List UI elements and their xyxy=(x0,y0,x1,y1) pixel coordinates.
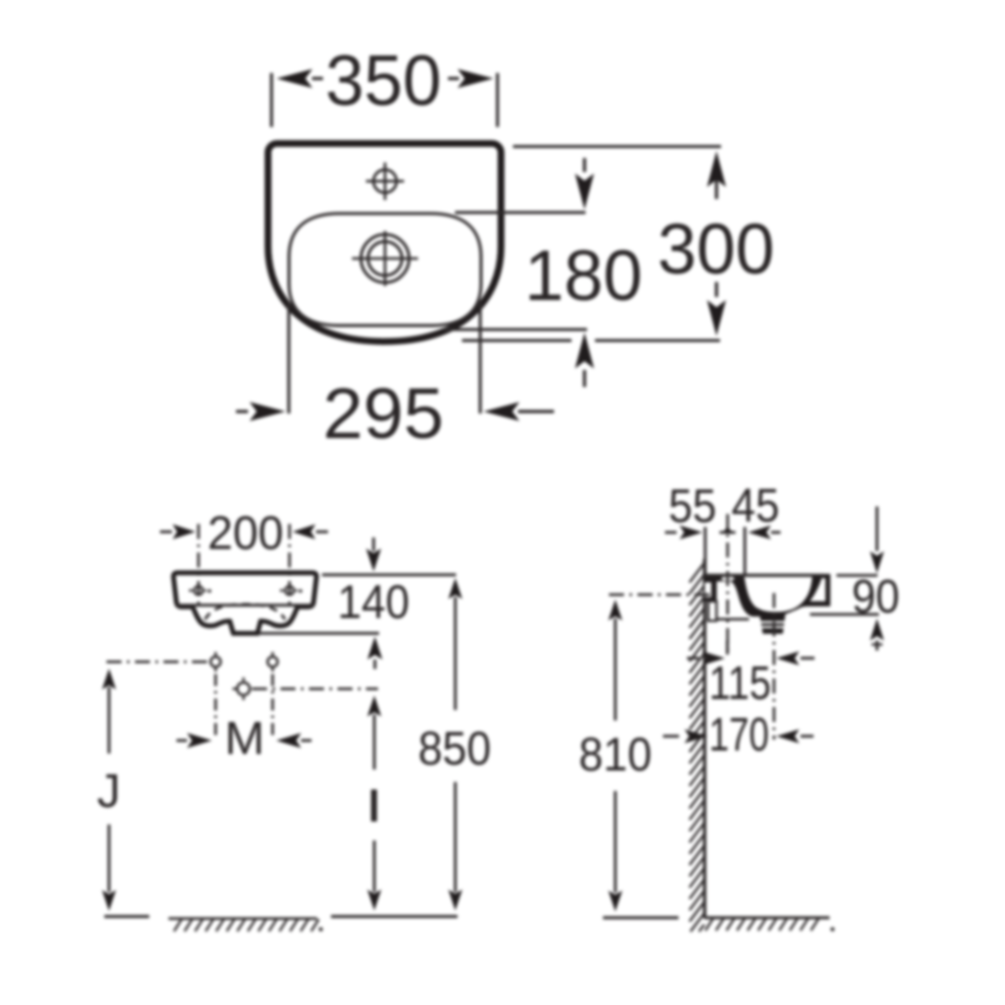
side view tap hole (white sliver) xyxy=(721,577,734,581)
side view bowl interior (white) xyxy=(744,577,812,612)
dimension 300 extension lines xyxy=(513,145,721,148)
dimension 295 arrows xyxy=(236,410,248,413)
front view floor hatching xyxy=(174,919,182,931)
svg-text:850: 850 xyxy=(418,722,491,775)
dimension 350 arrows xyxy=(312,77,323,80)
wall line xyxy=(703,559,706,918)
side view under-basin line xyxy=(717,618,750,621)
side view bracket outline xyxy=(708,601,716,621)
side view rim top line xyxy=(705,574,824,577)
svg-text:200: 200 xyxy=(208,506,284,559)
dimension 55/45 arrows xyxy=(665,531,677,534)
front view hole centerlines (dash-dot) xyxy=(197,524,200,605)
dimension I label (bar) xyxy=(371,790,377,822)
side floor hatching xyxy=(705,919,713,931)
svg-text:M: M xyxy=(225,712,265,764)
front view rim fixing holes xyxy=(194,586,203,595)
svg-text:45: 45 xyxy=(732,479,780,532)
dimension 180 reference lines xyxy=(455,211,586,214)
drain hole below xyxy=(237,683,250,696)
side view rim hook notch (white) xyxy=(810,578,826,601)
dimension 200 arrows xyxy=(160,530,172,533)
dimension 295 extension lines xyxy=(287,302,290,414)
svg-text:180: 180 xyxy=(525,237,643,316)
dimension 115 xyxy=(687,657,699,660)
svg-text:300: 300 xyxy=(658,210,775,289)
washbasin top view inner rim outline xyxy=(289,214,481,326)
svg-text:810: 810 xyxy=(579,728,652,781)
svg-text:170: 170 xyxy=(709,708,769,761)
washbasin top view outer outline xyxy=(268,144,501,342)
side view wall gap (white) xyxy=(705,582,711,597)
dimension J line and arrows xyxy=(102,669,116,690)
dimension 140 top extension line xyxy=(322,573,456,576)
drain symbol xyxy=(361,235,409,283)
dimension 850 line and arrows xyxy=(448,578,462,599)
front view basin outline xyxy=(173,573,316,634)
svg-text:J: J xyxy=(97,764,121,817)
tap centerline (dash-dot) xyxy=(726,514,729,655)
dimension 180 arrows xyxy=(583,158,586,172)
dimension 170 xyxy=(663,735,679,738)
front view hidden bowl arc (dashed) xyxy=(205,604,285,619)
810 reference centerline (dash-dot) xyxy=(609,593,713,596)
side floor line xyxy=(603,916,679,919)
front view floor line xyxy=(104,915,149,918)
dimension M arrows xyxy=(177,739,188,742)
drain centerline (dash-dot) xyxy=(773,593,776,740)
dimension 810 xyxy=(608,600,622,621)
wall hatching xyxy=(690,563,705,583)
dimension 140 arrows xyxy=(372,538,375,552)
dimension 90 xyxy=(876,507,879,552)
svg-text:350: 350 xyxy=(325,42,441,121)
side view basin silhouette xyxy=(704,574,831,617)
front view rim bottom line xyxy=(175,604,314,607)
dimension 90 top extension line xyxy=(837,574,878,577)
dimension 140 bottom extension line xyxy=(259,632,379,635)
dimension 350 extension lines xyxy=(270,73,273,127)
svg-text:115: 115 xyxy=(709,656,771,709)
side view drain block xyxy=(760,614,786,634)
55/45 extension lines xyxy=(704,527,707,577)
svg-text:295: 295 xyxy=(323,375,444,454)
wall bracket holes with centerlines xyxy=(107,660,210,663)
dimension 300 arrows xyxy=(707,151,726,187)
svg-text:140: 140 xyxy=(338,575,410,628)
faucet hole symbol xyxy=(374,170,397,193)
svg-text:55: 55 xyxy=(669,479,717,532)
dimension I line and arrows xyxy=(367,696,381,717)
